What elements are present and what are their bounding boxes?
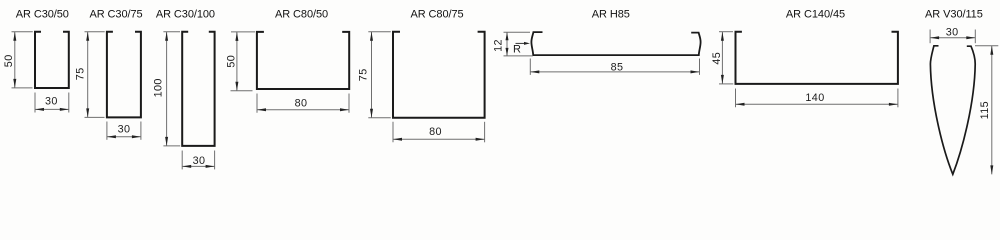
dimension 30 line: [35, 108, 69, 110]
dimension 115 text: [979, 101, 991, 119]
dimension 85 arrow right: [691, 70, 700, 73]
dimension 30 extension line right: [974, 30, 976, 44]
dimension 30 extension line left: [106, 122, 108, 140]
dimension 30 extension line right: [214, 151, 216, 170]
svg-text:AR H85: AR H85: [592, 9, 630, 21]
dimension 45 extension line top: [719, 31, 733, 33]
dimension 50 text: [3, 54, 15, 67]
dimension 115 extension line top: [975, 45, 998, 47]
svg-text:140: 140: [805, 92, 824, 104]
dimension 75 text: [357, 68, 369, 81]
dimension 50 line: [236, 32, 238, 91]
label AR C30/50: [16, 9, 69, 21]
svg-text:30: 30: [946, 27, 959, 39]
dimension 30 arrow right: [966, 36, 975, 39]
dimension 140 line: [736, 103, 898, 105]
dimension 80 extension line left: [392, 122, 394, 143]
dimension 140 arrow left: [736, 103, 745, 106]
svg-text:R: R: [513, 43, 521, 55]
dimension 30 extension line left: [34, 93, 36, 113]
dimension 45 text: [711, 52, 723, 65]
dimension 80 arrow left: [393, 138, 402, 141]
svg-text:AR C140/45: AR C140/45: [786, 9, 845, 21]
dimension 50 arrow down: [235, 82, 238, 91]
dimension 75 arrow down: [370, 109, 373, 118]
dimension 75 line: [371, 32, 373, 118]
dimension 100 extension line bottom: [163, 145, 180, 147]
profile AR V30/115 outline: [930, 46, 975, 175]
dimension 85 arrow left: [530, 70, 539, 73]
dimension 80 line: [257, 109, 349, 111]
dimension 75 arrow down: [86, 108, 89, 117]
profile AR H85 outline: [531, 32, 700, 55]
dimension 30 line: [930, 37, 975, 39]
dimension 30 arrow right: [132, 135, 141, 138]
svg-text:12: 12: [493, 39, 505, 52]
dimension 85 line: [530, 71, 699, 73]
svg-text:30: 30: [118, 124, 131, 136]
dimension 30 extension line left: [929, 30, 931, 44]
dimension 80 text: [429, 126, 442, 138]
dimension 50 extension line top: [231, 31, 255, 33]
dimension 45 extension line bottom: [719, 83, 733, 85]
label AR H85: [592, 9, 630, 21]
dimension 30 text: [45, 96, 58, 108]
profile AR C80/75 outline: [393, 32, 485, 118]
dimension 45 arrow down: [721, 75, 724, 84]
dimension 50 extension line bottom: [12, 87, 33, 89]
dimension 100 arrow down: [165, 137, 168, 146]
dimension 50 text: [226, 55, 238, 68]
dimension 30 arrow right: [206, 165, 215, 168]
dimension 75 extension line bottom: [368, 117, 391, 119]
dimension 140 text: [805, 92, 824, 104]
svg-text:AR V30/115: AR V30/115: [925, 9, 983, 21]
dimension 12 arrow down: [506, 48, 509, 56]
profile AR C80/50 outline: [257, 32, 349, 89]
dimension 75 text: [75, 67, 87, 80]
dimension 50 extension line top: [12, 31, 33, 33]
profile AR C30/100 outline: [182, 32, 214, 146]
dimension 75 arrow up: [86, 32, 89, 41]
dimension 30 arrow left: [182, 165, 191, 168]
dimension 80 arrow right: [476, 138, 485, 141]
svg-text:50: 50: [226, 55, 238, 68]
svg-text:AR C30/100: AR C30/100: [156, 9, 215, 21]
dimension 12 line: [506, 32, 508, 56]
dimension 12 extension line top: [504, 31, 531, 33]
dimension 30 text: [118, 124, 131, 136]
profile AR C30/75 outline: [107, 32, 141, 118]
dimension 75 extension line bottom: [85, 116, 105, 118]
dimension 100 arrow up: [165, 32, 168, 41]
label AR C80/75: [410, 9, 463, 21]
svg-text:AR C80/75: AR C80/75: [410, 9, 463, 21]
dimension 140 arrow right: [889, 103, 898, 106]
dimension 12 extension line bottom: [504, 55, 533, 57]
svg-text:115: 115: [979, 101, 991, 119]
dimension 100 text: [152, 78, 164, 97]
dimension 75 arrow up: [370, 32, 373, 41]
dimension 140 extension line left: [735, 89, 737, 108]
dimension 12 text: [493, 39, 505, 52]
label AR V30/115: [925, 9, 983, 21]
dimension 80 extension line right: [348, 94, 350, 113]
dimension 80 extension line left: [256, 94, 258, 113]
label R arrow: [516, 42, 531, 45]
dimension 115 arrow up: [990, 46, 993, 55]
dimension 30 text: [946, 27, 959, 39]
svg-text:100: 100: [152, 78, 164, 97]
dimension 30 extension line left: [181, 151, 183, 170]
svg-text:AR C80/50: AR C80/50: [275, 9, 328, 21]
dimension 85 text: [611, 62, 624, 74]
dimension 80 arrow left: [257, 108, 266, 111]
label R: [513, 43, 521, 55]
dimension 50 arrow up: [13, 32, 16, 41]
profile AR C30/50 outline: [35, 32, 69, 88]
dimension 80 arrow right: [340, 108, 349, 111]
svg-text:75: 75: [357, 68, 369, 81]
dimension 140 extension line right: [897, 89, 899, 108]
dimension 115 line: [991, 46, 993, 175]
svg-text:AR C30/75: AR C30/75: [89, 9, 142, 21]
dimension 30 arrow left: [107, 135, 116, 138]
dimension 50 line: [14, 32, 16, 88]
svg-text:AR C30/50: AR C30/50: [16, 9, 69, 21]
svg-text:75: 75: [75, 67, 87, 80]
dimension 80 line: [393, 138, 485, 140]
dimension 45 arrow up: [721, 32, 724, 41]
svg-text:80: 80: [429, 126, 442, 138]
dimension 30 line: [107, 136, 141, 138]
dimension 30 extension line right: [68, 93, 70, 113]
dimension 12 arrow up: [506, 32, 509, 40]
dimension 75 extension line top: [368, 31, 391, 33]
dimension 100 extension line top: [163, 31, 180, 33]
svg-text:45: 45: [711, 52, 723, 65]
svg-text:30: 30: [193, 155, 206, 167]
svg-text:50: 50: [3, 54, 15, 67]
label AR C30/100: [156, 9, 215, 21]
dimension 100 line: [166, 32, 168, 146]
label AR C30/75: [89, 9, 142, 21]
svg-text:30: 30: [45, 96, 58, 108]
svg-text:85: 85: [611, 62, 624, 74]
dimension 75 line: [87, 32, 89, 118]
dimension 30 extension line right: [140, 122, 142, 140]
dimension 80 text: [295, 97, 308, 109]
dimension 50 arrow up: [235, 32, 238, 41]
dimension 30 line: [182, 165, 214, 167]
svg-text:80: 80: [295, 97, 308, 109]
profile AR C140/45 outline: [736, 32, 898, 84]
dimension 115 arrow down: [990, 165, 993, 174]
dimension 85 extension line left: [529, 59, 531, 75]
dimension 30 arrow left: [35, 108, 44, 111]
dimension 50 arrow down: [13, 79, 16, 88]
dimension 50 extension line bottom: [231, 90, 253, 92]
dimension 80 extension line right: [484, 122, 486, 143]
dimension 30 arrow right: [60, 108, 69, 111]
label AR C140/45: [786, 9, 845, 21]
dimension 30 arrow left: [930, 36, 939, 39]
dimension 30 text: [193, 155, 206, 167]
label AR C80/50: [275, 9, 328, 21]
dimension 45 line: [721, 32, 723, 84]
dimension 85 extension line right: [699, 59, 701, 75]
dimension 75 extension line top: [85, 31, 105, 33]
